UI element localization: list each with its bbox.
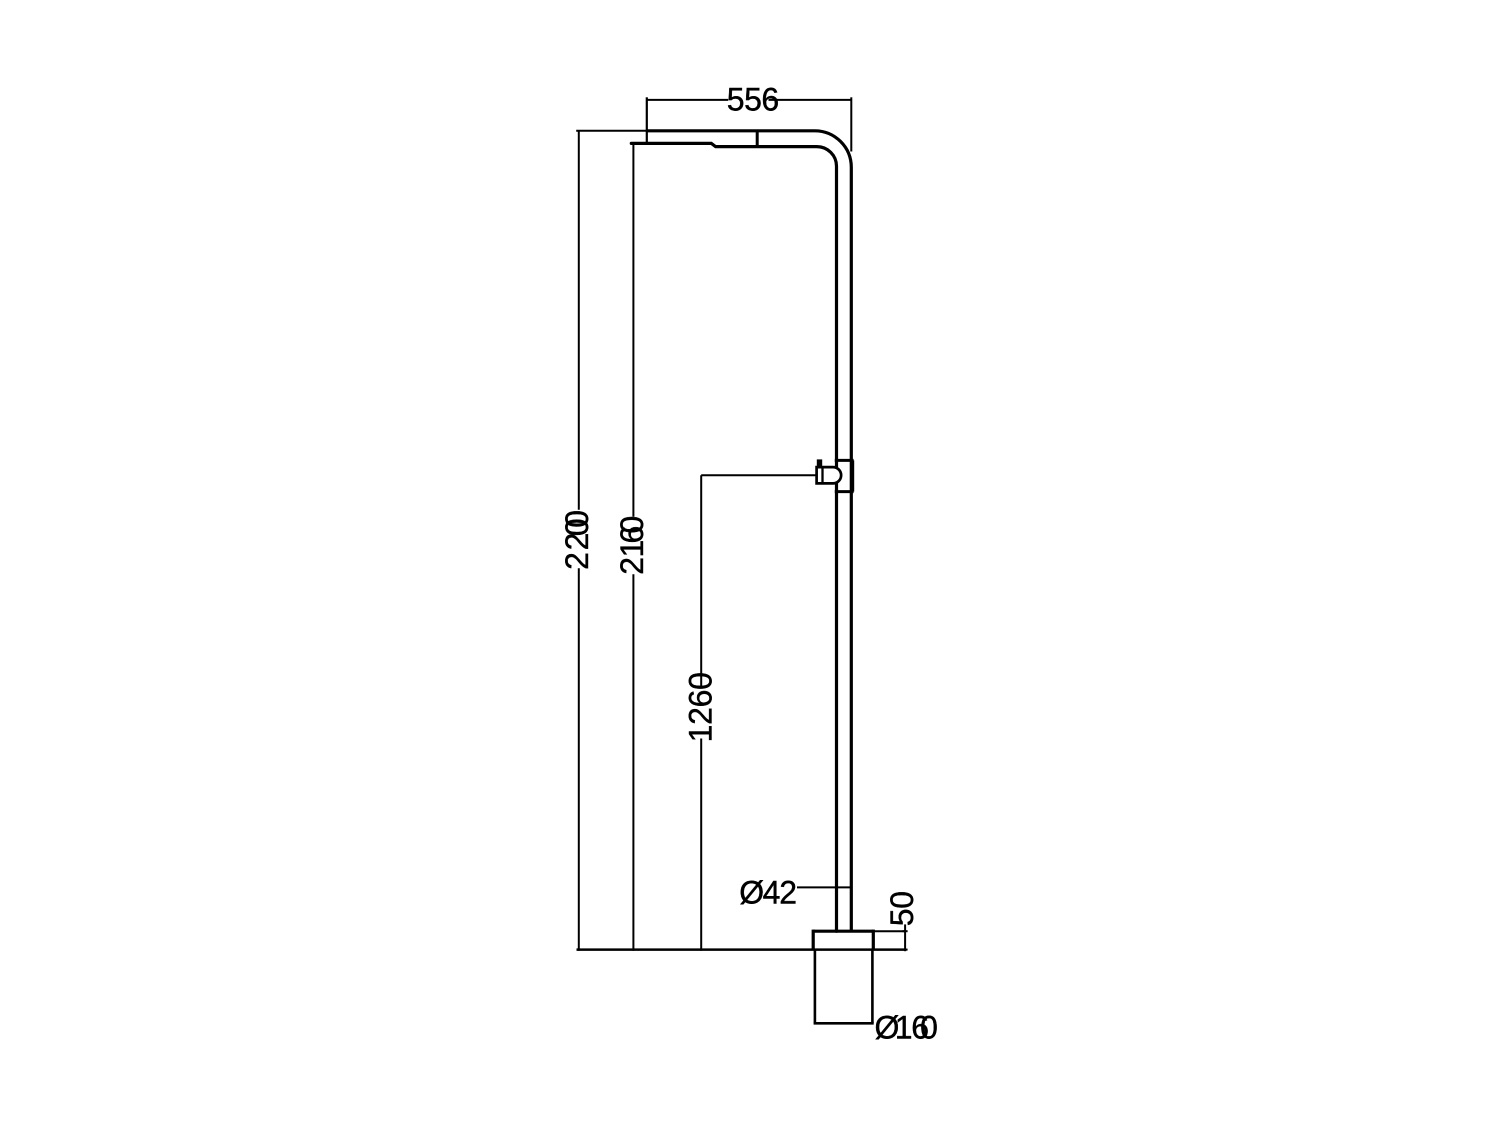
svg-text:Ø160: Ø160: [875, 1009, 938, 1045]
handshower holder body (D shape): [817, 467, 842, 483]
dimension 50 top extension line: [874, 930, 906, 932]
base cylinder bottom edge: [814, 1022, 874, 1025]
dimension 50 line: [904, 924, 906, 951]
base cylinder below floor right edge: [871, 950, 874, 1024]
svg-text:50: 50: [884, 891, 920, 926]
base cylinder below floor left edge: [814, 950, 817, 1024]
svg-text:2200: 2200: [559, 510, 595, 570]
dimension 2200 line upper segment: [578, 131, 580, 510]
dimension 556 line right segment: [769, 99, 852, 101]
slider sleeve bottom joint line: [835, 490, 854, 493]
dimension 50 tick bottom: [903, 949, 908, 951]
dimension 2200 line lower segment: [578, 568, 580, 951]
slider sleeve right edge: [852, 460, 855, 491]
dimension 556 left extension line: [646, 97, 648, 143]
floor line: [577, 948, 907, 951]
svg-text:2160: 2160: [614, 516, 650, 575]
base flange top edge: [813, 930, 873, 933]
dimension 2200 top extension line: [576, 130, 649, 132]
dimension 2160 line upper segment: [632, 143, 634, 516]
svg-text:1260: 1260: [682, 672, 718, 742]
dimension 50 tick top: [903, 930, 908, 932]
shower head bottom line, step, arm inner profile and riser tube inner line: [631, 143, 836, 931]
arm joint line: [756, 131, 759, 147]
dimension D42 leader line: [797, 886, 850, 888]
dimension 1260 line lower segment: [700, 739, 702, 951]
svg-text:Ø42: Ø42: [739, 874, 797, 910]
shower arm outer profile and riser tube outer line: [647, 131, 852, 931]
dimension 2160 line lower segment: [632, 574, 634, 951]
svg-text:556: 556: [727, 82, 779, 118]
base flange left edge: [812, 930, 815, 950]
slider sleeve top joint line: [835, 459, 854, 462]
dimension 1260 line upper segment: [700, 475, 702, 686]
handshower holder inner line: [821, 467, 823, 483]
dimension 556 right extension line: [850, 97, 852, 151]
dimension 556 line left segment: [647, 99, 728, 101]
base flange right edge: [872, 930, 875, 950]
dimension 1260 extension line (horizontal to holder): [701, 474, 817, 476]
handshower holder pin: [817, 459, 822, 467]
